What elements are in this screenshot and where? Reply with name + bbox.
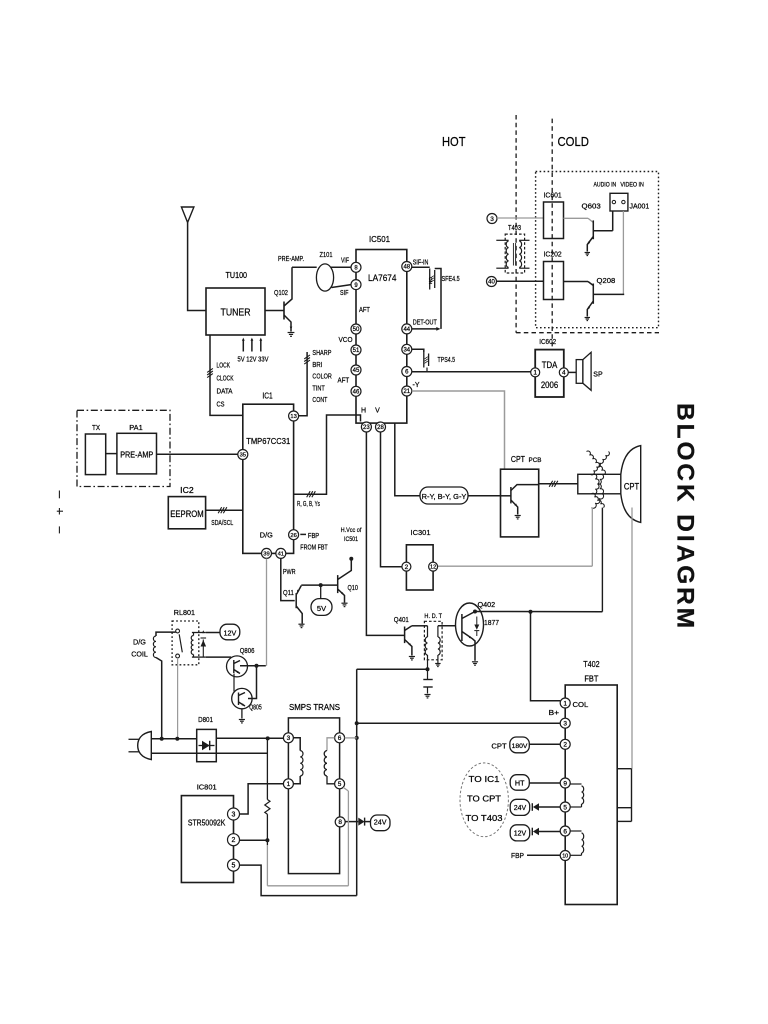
junctions B+ xyxy=(355,721,359,740)
wire pin21 -Y to CPT PCB xyxy=(412,391,505,469)
svg-text:2: 2 xyxy=(563,742,567,749)
transistor Q010 xyxy=(338,559,352,607)
wire IC801 pin5 return xyxy=(240,865,357,896)
junctions AC line xyxy=(160,736,270,740)
SMPS primary winding xyxy=(293,738,303,784)
node 12V relay xyxy=(220,624,240,640)
svg-text:STR50092K: STR50092K xyxy=(188,819,226,828)
svg-text:AUDIO IN: AUDIO IN xyxy=(594,183,617,189)
node HT xyxy=(510,775,529,791)
svg-text:Q208: Q208 xyxy=(597,276,616,285)
label IC1 xyxy=(262,391,273,400)
diode and wire 12V pin6 xyxy=(532,828,560,836)
svg-text:34: 34 xyxy=(403,347,410,353)
wire relay contact to AC xyxy=(177,658,179,739)
svg-text:3: 3 xyxy=(232,812,236,819)
wire primary B+ vertical xyxy=(356,669,358,895)
transistor Q806 xyxy=(227,656,248,677)
FBT pin 1 COL xyxy=(560,698,570,708)
transistor Q011 xyxy=(296,586,304,628)
wire Q805 collector xyxy=(248,666,257,699)
IC602 pin 1 xyxy=(531,368,540,377)
wire pin34 to TPS4.5 xyxy=(412,349,424,352)
svg-text:Q10: Q10 xyxy=(348,583,358,592)
degauss coil xyxy=(153,632,175,739)
ic IC2 EEPROM box xyxy=(168,497,205,529)
wire preamp to IC1 pin35 xyxy=(157,453,238,455)
svg-text:COL: COL xyxy=(573,700,589,709)
labels AFT VCO AFT H V xyxy=(338,307,381,415)
svg-text:IC501: IC501 xyxy=(369,235,391,244)
label HOT xyxy=(442,134,466,149)
svg-text:2006: 2006 xyxy=(541,380,558,390)
svg-text:3: 3 xyxy=(287,735,291,742)
svg-text:6: 6 xyxy=(563,828,567,835)
wire Q806 to Q805 xyxy=(233,674,235,692)
node 3 xyxy=(487,214,497,224)
transistor Q208 xyxy=(585,284,625,321)
svg-text:BRI: BRI xyxy=(312,360,322,369)
svg-text:39: 39 xyxy=(263,551,269,557)
svg-text:3: 3 xyxy=(490,216,494,223)
svg-text:D/G: D/G xyxy=(133,638,146,647)
junction H.Vcc xyxy=(349,557,353,561)
svg-text:SDA/SCL: SDA/SCL xyxy=(211,520,233,527)
label FBP xyxy=(511,851,524,860)
wire Q401 to HDT xyxy=(412,625,428,627)
ground Q805 xyxy=(239,709,245,723)
wire IC202 to Q208 base xyxy=(564,282,594,286)
label IC301 xyxy=(411,528,431,537)
label CPT 180V xyxy=(491,742,507,751)
svg-text:50: 50 xyxy=(353,327,360,333)
label Z101 xyxy=(320,250,333,259)
svg-text:TX: TX xyxy=(92,423,100,432)
labels AUDIO IN VIDEO IN xyxy=(594,183,644,189)
transistor Q401 xyxy=(405,626,415,660)
node 24V xyxy=(371,815,391,831)
svg-text:COIL: COIL xyxy=(131,650,148,659)
svg-text:44: 44 xyxy=(403,327,410,333)
svg-text:SP: SP xyxy=(593,372,603,379)
wire RGB bus IC1 to IC501 xyxy=(294,415,361,497)
svg-text:6: 6 xyxy=(338,735,342,742)
tuner TU100 box xyxy=(206,288,265,335)
svg-text:PRE-AMP.: PRE-AMP. xyxy=(278,256,304,263)
svg-text:1: 1 xyxy=(533,370,537,377)
relay coil with diode xyxy=(191,630,206,657)
wire 5V stub xyxy=(320,585,322,599)
ic IC1 TMP67CC31 box xyxy=(243,404,294,553)
svg-text:JA001: JA001 xyxy=(630,204,650,211)
IC301 pin 12 xyxy=(429,562,438,571)
relay contact xyxy=(176,629,183,658)
wire yoke V to IC301 pin12 xyxy=(438,508,593,567)
wire to FBT COL pin1 xyxy=(531,612,561,701)
dashed line bottom xyxy=(516,332,659,334)
label IC801 xyxy=(197,783,217,792)
CRT picture tube CPT xyxy=(578,446,641,523)
svg-text:48: 48 xyxy=(403,265,410,271)
wire diode to 24V xyxy=(365,821,371,823)
svg-text:TPS4.5: TPS4.5 xyxy=(438,357,456,364)
svg-text:5V 12V 33V: 5V 12V 33V xyxy=(238,357,269,364)
transformer T403 xyxy=(496,234,529,273)
wire relay to Q806 base xyxy=(206,657,234,661)
label JA001 xyxy=(630,204,650,211)
junction COL xyxy=(529,610,533,614)
resistor startup xyxy=(265,738,270,845)
svg-text:1: 1 xyxy=(563,700,567,707)
wire tuner control bus xyxy=(207,335,243,415)
flyback T402 FBT box xyxy=(565,685,617,905)
ic IC602 TDA2006 box xyxy=(535,350,564,397)
IC1 pin 13 xyxy=(289,411,299,421)
diode 24V xyxy=(358,818,364,826)
deflection yoke coils xyxy=(587,451,610,508)
IC301 pin 2 xyxy=(402,562,411,571)
svg-text:DATA: DATA xyxy=(217,388,233,395)
svg-text:46: 46 xyxy=(353,389,360,395)
wire pin6 audio to IC602 xyxy=(412,371,531,373)
svg-text:TMP67CC31: TMP67CC31 xyxy=(246,436,290,446)
dotted box cold section xyxy=(536,172,659,328)
wire pin8 to diode xyxy=(345,821,358,823)
svg-text:SFE4.5: SFE4.5 xyxy=(442,276,460,283)
svg-text:B+: B+ xyxy=(549,708,560,717)
AC plug xyxy=(129,732,152,760)
wire R-Y oval to cpt pcb xyxy=(468,495,501,497)
IC1 pin 26 xyxy=(289,530,299,540)
label -Y xyxy=(413,382,420,389)
wire IC602 to speaker xyxy=(568,371,576,373)
relay RL801 dotted box xyxy=(172,621,199,665)
svg-text:SIF: SIF xyxy=(340,290,349,297)
svg-text:24V: 24V xyxy=(514,805,527,812)
svg-text:IC601: IC601 xyxy=(544,191,562,200)
label FBP FROM FBT xyxy=(300,533,328,552)
antenna xyxy=(181,207,194,223)
wire pin28 V to IC301 xyxy=(381,432,402,567)
wire tuner to Q102 base xyxy=(265,310,284,312)
IC501 pin 6 audio xyxy=(402,367,412,377)
SMPS secondary winding xyxy=(324,738,334,784)
svg-text:COLOR: COLOR xyxy=(312,372,331,381)
svg-text:5V: 5V xyxy=(317,604,326,613)
labels VIF SIF xyxy=(340,258,349,298)
svg-text:9: 9 xyxy=(563,780,567,787)
hot cold dashed line 2 xyxy=(551,119,553,350)
svg-text:10: 10 xyxy=(562,853,568,859)
label CPT xyxy=(624,482,639,493)
svg-text:24V: 24V xyxy=(374,818,387,827)
wire into cpt transistor xyxy=(501,495,511,497)
IC501 pin 9 SIF xyxy=(351,280,361,290)
svg-text:1: 1 xyxy=(287,781,291,788)
label T402 FBT xyxy=(583,660,600,684)
label Q11 xyxy=(283,588,294,597)
svg-text:IC2: IC2 xyxy=(180,486,194,495)
svg-text:BLOCK DIAGRM: BLOCK DIAGRM xyxy=(672,403,699,631)
IC501 pin 23 H xyxy=(361,422,371,432)
svg-text:PRE-AMP: PRE-AMP xyxy=(120,451,153,460)
IC501 pin 44 DET-OUT xyxy=(402,324,412,334)
label SDA SCL xyxy=(211,520,233,527)
svg-text:35: 35 xyxy=(240,453,246,459)
svg-text:LOCK: LOCK xyxy=(217,362,231,369)
wire pin41 PWR to Q011 xyxy=(281,559,295,601)
svg-text:LA7674: LA7674 xyxy=(368,273,397,284)
labels TX PA1 xyxy=(92,423,143,432)
label COLD xyxy=(558,134,590,149)
wire Q011 to Q010 base xyxy=(301,584,337,586)
node 180V xyxy=(510,737,530,753)
label SIF-IN xyxy=(413,260,429,267)
IC501 pin 48 SIF-IN xyxy=(402,262,412,272)
ic IC501 LA7674 box xyxy=(356,250,407,424)
svg-text:5: 5 xyxy=(232,863,236,870)
title BLOCK DIAGRM xyxy=(672,403,699,631)
svg-text:EEPROM: EEPROM xyxy=(170,509,204,520)
svg-text:CPT: CPT xyxy=(511,454,525,464)
transistor Q603 xyxy=(585,211,613,256)
svg-text:Q603: Q603 xyxy=(582,202,601,211)
tuner supply arrows 5V 12V 33V xyxy=(238,338,269,364)
svg-text:R, G, B, Ys: R, G, B, Ys xyxy=(297,501,320,508)
IC1 pin 41 xyxy=(276,548,286,558)
label IC602 xyxy=(539,337,556,346)
transistor Q402 H-out xyxy=(456,603,484,665)
IC501 pin 51 xyxy=(351,345,361,355)
svg-text:RL801: RL801 xyxy=(174,608,195,617)
svg-text:SHARP: SHARP xyxy=(312,348,331,357)
svg-text:HO: HO xyxy=(428,277,433,284)
svg-text:H.Vcc of: H.Vcc of xyxy=(341,527,362,534)
wire node40 to IC202 xyxy=(497,280,544,282)
label R G B Ys xyxy=(297,501,320,508)
label CPT PCB xyxy=(511,454,542,464)
wire IC801 pin3 to SMPS pin1 xyxy=(240,784,284,814)
label PRE-AMP xyxy=(278,256,304,263)
svg-text:40: 40 xyxy=(488,280,495,286)
svg-text:COLD: COLD xyxy=(558,134,590,149)
label D/G xyxy=(260,533,273,540)
label IC2 xyxy=(180,486,194,495)
wire HDT return to B+ rail xyxy=(357,667,430,671)
label D/G COIL xyxy=(131,638,148,659)
svg-text:D801: D801 xyxy=(198,715,213,724)
wire IC1 pin13 control bus xyxy=(298,352,310,416)
transformer H.D.T xyxy=(424,621,442,669)
wire JA001 video to Q208 xyxy=(622,211,624,294)
wire 180V to pin2 xyxy=(529,743,560,745)
IC501 pin 46 xyxy=(351,386,361,396)
label T403 xyxy=(508,225,521,232)
SMPS pin 5 xyxy=(335,779,345,789)
svg-text:FROM FBT: FROM FBT xyxy=(300,545,328,552)
svg-text:51: 51 xyxy=(353,348,360,354)
IC501 pin 21 -Y xyxy=(402,386,412,396)
wire coil to 12V xyxy=(206,632,220,634)
svg-text:CPT: CPT xyxy=(491,742,507,751)
diode and wire 24V pin5 xyxy=(532,803,560,811)
wire pin48 to SFE4.5 xyxy=(412,266,430,268)
svg-text:VCO: VCO xyxy=(339,337,354,344)
svg-text:2: 2 xyxy=(405,564,409,571)
svg-text:D/G: D/G xyxy=(260,533,273,540)
label TPS4.5 xyxy=(438,357,456,364)
IC602 pin 4 xyxy=(559,368,568,377)
wire AC bottom xyxy=(151,752,267,754)
svg-text:VIF: VIF xyxy=(341,258,349,265)
filter Z101 xyxy=(316,264,333,291)
wire Z101 to pin8 xyxy=(331,266,352,268)
wire Q806 collector xyxy=(240,665,266,667)
labels SHARP BRI COLOR TINT CONT xyxy=(312,348,331,404)
wire pin44 DET-OUT xyxy=(412,327,441,331)
svg-text:5: 5 xyxy=(338,781,342,788)
svg-text:TINT: TINT xyxy=(312,383,325,392)
node 24V FBT xyxy=(510,799,530,815)
svg-text:28: 28 xyxy=(377,425,384,431)
svg-text:VIDEO IN: VIDEO IN xyxy=(620,183,644,189)
svg-text:CS: CS xyxy=(217,401,225,408)
svg-text:IC1: IC1 xyxy=(262,391,273,400)
FBT HV connection notches xyxy=(617,769,631,822)
svg-text:Q11: Q11 xyxy=(283,588,294,597)
label RL801 xyxy=(174,608,195,617)
svg-text:AFT: AFT xyxy=(338,377,350,384)
wire cpt pcb to yoke xyxy=(539,481,578,487)
svg-text:SIF-IN: SIF-IN xyxy=(413,260,429,267)
label H.D.T xyxy=(424,613,442,620)
svg-text:Q401: Q401 xyxy=(394,615,409,624)
cpt pcb box xyxy=(501,469,539,537)
FBT pin 9 HT xyxy=(560,778,570,788)
svg-text:-Y: -Y xyxy=(413,382,420,389)
svg-text:IC301: IC301 xyxy=(411,528,431,537)
wire secondary return loop xyxy=(267,787,348,885)
svg-text:TO CPT: TO CPT xyxy=(467,794,501,804)
FBT pin 6 12V xyxy=(560,826,570,836)
ic IC301 box xyxy=(406,545,433,590)
wire AC top to D801 xyxy=(151,738,196,740)
label Q401 xyxy=(394,615,409,624)
wire node3 to IC601 xyxy=(497,217,544,219)
label Q805 xyxy=(249,703,262,712)
label D801 xyxy=(198,715,213,724)
svg-text:180V: 180V xyxy=(512,743,528,750)
svg-text:HOT: HOT xyxy=(442,134,466,149)
IC801 pin 2 xyxy=(228,834,240,846)
wire H collector node xyxy=(473,610,602,614)
label SFE4.5 xyxy=(442,276,460,283)
label B+ xyxy=(549,708,560,717)
svg-text:Q102: Q102 xyxy=(274,288,288,297)
svg-text:HT: HT xyxy=(515,778,525,787)
node 5V xyxy=(311,599,332,616)
svg-text:SMPS TRANS: SMPS TRANS xyxy=(289,702,340,712)
svg-text:26: 26 xyxy=(290,533,296,539)
wire Z101 to pin9 xyxy=(332,285,352,288)
svg-text:CLOCK: CLOCK xyxy=(217,375,234,382)
svg-text:12V: 12V xyxy=(514,831,527,838)
label SMPS TRANS xyxy=(289,702,340,712)
IC501 pin 8 VIF xyxy=(351,262,361,272)
label DET-OUT xyxy=(413,320,438,327)
wire antenna to tuner xyxy=(188,223,206,311)
ic IC202 box xyxy=(544,262,564,300)
transformer SMPS box xyxy=(288,718,339,874)
wire HDT to Q402 base xyxy=(438,625,462,627)
dashed box TX PA1 xyxy=(77,410,170,486)
wire B+ to FBT pin3 xyxy=(357,722,561,724)
label IC601 xyxy=(544,191,562,200)
label Q603 xyxy=(582,202,601,211)
SMPS pin 3 xyxy=(283,733,293,743)
pa1 PRE-AMP box xyxy=(117,433,157,474)
IC1 pin 39 xyxy=(262,548,272,558)
svg-text:PA1: PA1 xyxy=(129,423,143,432)
label COL xyxy=(573,700,589,709)
svg-text:Q402: Q402 xyxy=(478,600,496,609)
wire tx to preamp xyxy=(106,453,117,455)
svg-text:IC501: IC501 xyxy=(344,536,358,543)
fold mark xyxy=(57,491,63,534)
svg-text:41: 41 xyxy=(278,551,284,557)
wire pin39 D/G to Q806 xyxy=(266,559,268,666)
labels LOCK CLOCK DATA CS xyxy=(217,362,234,408)
svg-text:DET-OUT: DET-OUT xyxy=(413,320,438,327)
svg-text:TO IC1: TO IC1 xyxy=(469,774,500,784)
filter SFE4.5 xyxy=(428,269,441,329)
label Q102 xyxy=(274,288,288,297)
svg-text:21: 21 xyxy=(403,389,410,395)
svg-text:H: H xyxy=(361,408,366,415)
svg-text:12V: 12V xyxy=(224,628,237,637)
svg-text:FBP: FBP xyxy=(511,851,524,860)
svg-text:H. D. T: H. D. T xyxy=(424,613,442,620)
jack JA001 xyxy=(610,193,628,211)
label PWR xyxy=(283,569,296,576)
IC501 pin 34 xyxy=(402,344,412,354)
FBT secondary windings xyxy=(570,784,584,855)
label Q208 xyxy=(597,276,616,285)
svg-text:V: V xyxy=(375,408,380,415)
wire IC501 to R-Y B-Y G-Y xyxy=(395,423,420,496)
svg-text:T402: T402 xyxy=(583,660,600,669)
FBT pin 2 180V xyxy=(560,739,570,749)
svg-text:FBP: FBP xyxy=(308,533,320,540)
svg-text:IC801: IC801 xyxy=(197,783,217,792)
wire SMPS pin6 to rail xyxy=(345,737,357,739)
svg-text:IC202: IC202 xyxy=(544,250,562,259)
IC1 pin 35 xyxy=(238,450,248,460)
IC801 pin 3 xyxy=(228,808,240,820)
label Q806 xyxy=(240,646,255,655)
svg-text:23: 23 xyxy=(363,425,370,431)
wire IC801 pin2 xyxy=(240,838,270,842)
svg-text:Q806: Q806 xyxy=(240,646,255,655)
label Q402 xyxy=(478,600,496,609)
svg-text:1877: 1877 xyxy=(484,618,499,627)
wire Q102 to Z101 xyxy=(292,266,317,268)
svg-text:4: 4 xyxy=(562,370,566,377)
svg-text:TO T403: TO T403 xyxy=(466,813,503,823)
IC501 pin 45 xyxy=(351,365,361,375)
node R-Y B-Y G-Y xyxy=(420,487,468,504)
svg-text:TUNER: TUNER xyxy=(221,307,251,319)
